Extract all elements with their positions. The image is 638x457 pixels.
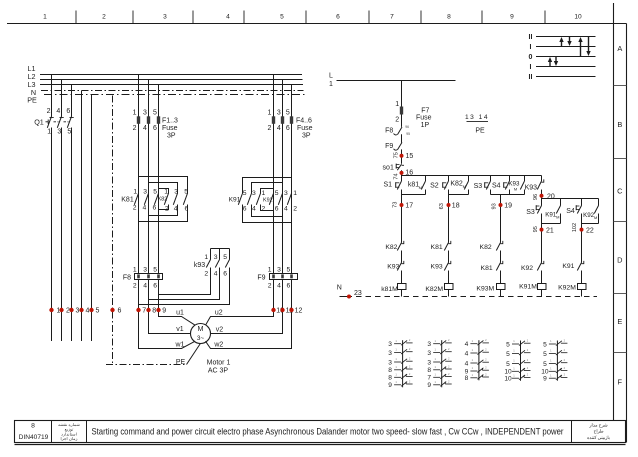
svg-text:4: 4 xyxy=(143,125,147,132)
svg-text:4: 4 xyxy=(284,206,288,213)
svg-text:K82: K82 xyxy=(158,196,168,202)
node 10 xyxy=(271,308,284,315)
svg-text:8: 8 xyxy=(388,375,392,382)
wire control feed line xyxy=(337,80,456,82)
title block revision cell (Farsi) xyxy=(58,422,80,441)
svg-text:6: 6 xyxy=(287,283,291,290)
node 20 xyxy=(533,194,555,201)
wire loop K91 outer xyxy=(243,178,292,223)
svg-text:5: 5 xyxy=(287,266,291,273)
node 3 xyxy=(69,308,79,315)
svg-text:K81: K81 xyxy=(431,244,443,251)
svg-text:1: 1 xyxy=(395,101,399,108)
svg-text:K91M: K91M xyxy=(519,284,537,291)
node 6 xyxy=(110,308,121,315)
wire subrung1 down xyxy=(541,224,543,263)
svg-text:v1: v1 xyxy=(176,326,184,333)
rail L1 xyxy=(40,74,302,76)
motor terminal labels xyxy=(175,310,224,349)
node 12 xyxy=(289,308,302,315)
svg-text:K92: K92 xyxy=(583,212,595,219)
svg-text:5: 5 xyxy=(67,129,71,136)
svg-text:3~: 3~ xyxy=(197,335,205,342)
svg-text:1: 1 xyxy=(47,129,51,136)
wire rung3 bottom bar xyxy=(491,194,525,196)
svg-text:M: M xyxy=(463,184,466,189)
svg-text:K82: K82 xyxy=(450,181,463,188)
svg-text:E: E xyxy=(617,317,622,326)
svg-text:1: 1 xyxy=(268,266,272,273)
node 2 xyxy=(59,308,70,315)
coil k81M xyxy=(398,284,407,297)
fuse F4..6 bodies xyxy=(272,116,293,124)
overload relay F8 xyxy=(135,274,163,280)
node 1 xyxy=(49,308,60,315)
svg-text:63: 63 xyxy=(439,203,445,209)
svg-text:K92: K92 xyxy=(521,265,533,272)
K91 terminal numbers xyxy=(243,190,266,213)
contact K93 aux NO xyxy=(508,176,524,195)
coil K93M xyxy=(497,284,506,297)
node 7 xyxy=(136,308,146,315)
svg-text:23: 23 xyxy=(354,290,362,297)
svg-text:10: 10 xyxy=(504,376,512,383)
svg-text:S3: S3 xyxy=(474,183,483,190)
ruler ticks xyxy=(76,11,545,24)
svg-text:2: 2 xyxy=(293,206,297,213)
svg-text:4: 4 xyxy=(214,271,218,278)
fuse F7 label xyxy=(416,107,432,128)
terminal label 13 14 PE xyxy=(465,114,489,135)
svg-text:K81: K81 xyxy=(121,197,134,204)
node 8 xyxy=(146,308,156,315)
svg-text:1: 1 xyxy=(133,109,137,116)
Q1 pole 2 xyxy=(57,80,63,342)
svg-text:102: 102 xyxy=(572,223,578,232)
svg-text:3: 3 xyxy=(214,254,218,261)
node 5 xyxy=(89,308,99,315)
svg-text:22: 22 xyxy=(586,227,594,234)
svg-text:1: 1 xyxy=(164,189,168,196)
svg-text:K92: K92 xyxy=(263,198,273,204)
svg-text:1: 1 xyxy=(293,190,297,197)
svg-text:M: M xyxy=(556,215,559,220)
rail L3 xyxy=(40,84,303,86)
control feed label L 1 xyxy=(329,72,333,88)
svg-text:3P: 3P xyxy=(302,132,311,139)
svg-text:K92M: K92M xyxy=(558,285,576,292)
wire rung1 bottom bar xyxy=(402,194,426,196)
svg-text:3: 3 xyxy=(427,359,431,366)
svg-text:F8: F8 xyxy=(385,128,393,135)
svg-text:5: 5 xyxy=(506,341,510,348)
svg-text:8: 8 xyxy=(31,423,35,430)
fuse F4..6 label xyxy=(296,117,313,139)
svg-text:1P: 1P xyxy=(421,122,430,129)
Q1 pole 3 xyxy=(67,85,73,342)
F9 terminal numbers xyxy=(268,266,291,289)
wire loop K82 middle xyxy=(149,183,178,216)
wire fuse F1..3 drops xyxy=(139,75,159,194)
svg-text:3: 3 xyxy=(427,350,431,357)
svg-text:3: 3 xyxy=(57,129,61,136)
wire rung2 drop xyxy=(448,176,450,182)
wire subrung2 bar xyxy=(582,223,599,225)
svg-text:PE: PE xyxy=(475,128,485,135)
svg-text:96: 96 xyxy=(405,125,409,129)
k93 terminal numbers xyxy=(204,254,227,277)
svg-text:3: 3 xyxy=(174,189,178,196)
F8 terminal numbers xyxy=(133,266,157,289)
node 18 xyxy=(439,203,460,210)
svg-text:4: 4 xyxy=(252,206,256,213)
svg-text:II: II xyxy=(529,34,533,41)
svg-text:5: 5 xyxy=(543,351,547,358)
wire loop K82 inner xyxy=(159,189,169,210)
svg-text:1: 1 xyxy=(133,266,137,273)
contact K93 NC gate xyxy=(537,176,544,199)
svg-text:k81M: k81M xyxy=(381,286,398,293)
speed sequence diagram lines II I 0 I II xyxy=(529,34,596,81)
svg-text:F7: F7 xyxy=(421,107,429,114)
svg-text:2: 2 xyxy=(133,125,137,132)
svg-text:6: 6 xyxy=(243,206,247,213)
svg-text:C: C xyxy=(617,187,623,196)
wire K92 outputs down to F9 xyxy=(274,205,292,274)
svg-text:9: 9 xyxy=(543,376,547,383)
svg-text:4: 4 xyxy=(277,125,281,132)
svg-text:3: 3 xyxy=(143,266,147,273)
rail N dash-dot xyxy=(41,90,304,92)
svg-text:w1: w1 xyxy=(175,342,185,349)
svg-text:4: 4 xyxy=(465,341,469,348)
svg-text:بازبینی کننده: بازبینی کننده xyxy=(587,435,610,440)
button so1 stop NC xyxy=(396,164,404,176)
svg-text:1: 1 xyxy=(267,109,271,116)
svg-text:8: 8 xyxy=(427,367,431,374)
svg-text:M: M xyxy=(594,215,597,220)
svg-text:u1: u1 xyxy=(176,310,184,317)
ruler numbers 1-10 xyxy=(43,14,582,21)
button S3 start xyxy=(485,176,491,195)
contact K91 NC (rung5) xyxy=(577,261,584,284)
motor name label xyxy=(207,359,231,374)
svg-text:F: F xyxy=(618,378,623,387)
svg-text:17: 17 xyxy=(405,203,413,210)
wire PE bonding conductor dash-dot xyxy=(106,96,200,365)
wire N drop xyxy=(81,91,83,342)
svg-text:9: 9 xyxy=(510,14,514,21)
Q1 linkage dashes xyxy=(46,120,69,125)
svg-text:0: 0 xyxy=(529,54,533,61)
coil K92M xyxy=(578,284,587,297)
svg-text:12: 12 xyxy=(295,308,303,315)
svg-text:طراح: طراح xyxy=(594,428,604,433)
title block sheet cell xyxy=(19,423,49,442)
border frame top ruler line xyxy=(7,23,627,25)
svg-text:20: 20 xyxy=(547,194,555,201)
svg-text:PE: PE xyxy=(176,359,186,366)
svg-text:II: II xyxy=(529,74,533,81)
svg-text:3: 3 xyxy=(76,308,80,315)
contact K82 NC (rung3) xyxy=(496,241,503,263)
wire k93 to motor lines xyxy=(139,268,230,305)
svg-text:3: 3 xyxy=(143,109,147,116)
svg-text:A: A xyxy=(617,44,622,53)
svg-text:2: 2 xyxy=(204,271,208,278)
svg-text:1: 1 xyxy=(43,14,47,21)
svg-text:K91: K91 xyxy=(545,212,557,219)
node 16 xyxy=(393,170,413,180)
svg-text:3: 3 xyxy=(277,266,281,273)
svg-text:3: 3 xyxy=(252,190,256,197)
sequence arrows xyxy=(548,37,591,67)
svg-text:K93: K93 xyxy=(525,184,538,191)
svg-text:2: 2 xyxy=(133,283,137,290)
contact K93 NC (rung1) xyxy=(397,261,404,284)
svg-text:6: 6 xyxy=(118,308,122,315)
wire loop K82 outer xyxy=(139,177,188,222)
svg-text:73: 73 xyxy=(392,202,398,208)
svg-text:F1..3: F1..3 xyxy=(162,117,178,124)
contact K81 NC (rung3) xyxy=(496,261,503,284)
svg-text:19: 19 xyxy=(504,203,512,210)
motor label M 3~ xyxy=(197,324,205,342)
contact cross-reference table k81M xyxy=(388,338,412,389)
fuse F7 terminal numbers xyxy=(395,101,399,123)
svg-text:5: 5 xyxy=(153,188,157,195)
wire loop K91 middle xyxy=(252,183,283,217)
svg-text:5: 5 xyxy=(286,109,290,116)
svg-text:k93: k93 xyxy=(194,262,205,269)
contactor K92 poles xyxy=(269,193,291,205)
svg-text:AC 3P: AC 3P xyxy=(208,368,229,375)
svg-text:Q1: Q1 xyxy=(34,117,44,126)
svg-text:3P: 3P xyxy=(167,132,176,139)
svg-text:4: 4 xyxy=(226,14,230,21)
fuse F1..3 terminal numbers xyxy=(133,109,157,132)
svg-text:6: 6 xyxy=(153,205,157,212)
button S4 start xyxy=(504,176,510,195)
contactor K91 poles xyxy=(238,193,260,205)
svg-text:3: 3 xyxy=(388,359,392,366)
svg-text:K82M: K82M xyxy=(425,286,443,293)
svg-text:2: 2 xyxy=(165,205,169,212)
contactor k93 poles xyxy=(206,260,229,268)
contact cross-reference table K92M xyxy=(541,339,567,383)
svg-text:M: M xyxy=(514,186,517,191)
wire sub rail xyxy=(542,198,599,200)
wire subrung1 bar xyxy=(542,223,561,225)
wire rung3 down xyxy=(500,195,502,243)
button S2 start xyxy=(443,176,449,195)
button S3 speed select xyxy=(536,199,541,224)
svg-text:5: 5 xyxy=(280,14,284,21)
svg-text:M: M xyxy=(419,185,422,190)
svg-text:3: 3 xyxy=(284,190,288,197)
node 15 xyxy=(393,152,413,160)
svg-text:8: 8 xyxy=(447,14,451,21)
node 23 xyxy=(347,290,362,299)
svg-text:5: 5 xyxy=(153,109,157,116)
contactor K81 poles xyxy=(134,193,158,205)
wire control rail xyxy=(402,175,542,177)
overload relay F9 xyxy=(270,274,298,280)
svg-text:4: 4 xyxy=(143,205,147,212)
svg-text:3: 3 xyxy=(388,341,392,348)
svg-text:1: 1 xyxy=(262,190,266,197)
svg-text:F9: F9 xyxy=(257,274,265,281)
node 19 xyxy=(491,203,512,210)
Q1 terminal numbers xyxy=(47,108,72,135)
svg-text:5: 5 xyxy=(153,266,157,273)
svg-text:6: 6 xyxy=(223,271,227,278)
contactor K82 poles xyxy=(164,193,187,205)
svg-text:8: 8 xyxy=(465,375,469,382)
row letter separators xyxy=(614,86,627,353)
node 17 xyxy=(392,202,413,210)
svg-text:شرح مدار: شرح مدار xyxy=(588,422,607,427)
svg-text:8: 8 xyxy=(152,308,156,315)
contact K92 NC (rung4) xyxy=(537,261,544,284)
svg-text:9: 9 xyxy=(388,382,392,389)
svg-text:Motor 1: Motor 1 xyxy=(207,359,231,366)
contact K91 aux NO xyxy=(545,199,560,224)
svg-text:N: N xyxy=(337,284,342,291)
svg-text:95: 95 xyxy=(406,132,410,136)
svg-text:F9: F9 xyxy=(385,143,393,150)
svg-text:6: 6 xyxy=(153,283,157,290)
svg-text:2: 2 xyxy=(66,308,70,315)
svg-text:5: 5 xyxy=(184,189,188,196)
svg-text:2: 2 xyxy=(267,125,271,132)
border frame right outer vertical xyxy=(626,24,628,443)
svg-text:M: M xyxy=(198,324,204,333)
wire rung1 down xyxy=(401,195,403,243)
rail L2 xyxy=(40,79,303,81)
svg-text:u2: u2 xyxy=(215,310,223,317)
title block signature cell (Farsi) xyxy=(587,422,610,439)
svg-text:I: I xyxy=(530,64,532,71)
wire F8 to u1 v1 w1 xyxy=(139,279,196,349)
svg-text:K93M: K93M xyxy=(476,286,494,293)
svg-text:15: 15 xyxy=(406,153,414,160)
svg-text:Fuse: Fuse xyxy=(416,115,432,122)
svg-text:74: 74 xyxy=(393,173,399,179)
contact K82 NC (rung1) xyxy=(397,241,404,263)
fuse F4..6 terminal numbers xyxy=(267,109,289,132)
coil K91M xyxy=(538,284,547,297)
svg-text:5: 5 xyxy=(243,190,247,197)
svg-text:1: 1 xyxy=(329,81,333,88)
contact cross-reference table K93M xyxy=(465,338,489,382)
svg-text:K81: K81 xyxy=(481,265,493,272)
svg-text:5: 5 xyxy=(506,351,510,358)
contact k81 aux NO xyxy=(408,176,426,195)
svg-text:2: 2 xyxy=(262,206,266,213)
svg-text:4: 4 xyxy=(174,205,178,212)
fuse F1..3 label xyxy=(162,117,178,139)
svg-text:S4: S4 xyxy=(492,182,501,189)
svg-text:7: 7 xyxy=(427,375,431,382)
svg-text:4: 4 xyxy=(86,308,90,315)
coil K82M xyxy=(445,284,454,297)
svg-text:D: D xyxy=(617,256,622,265)
border frame right inner vertical xyxy=(613,3,615,421)
svg-text:10: 10 xyxy=(574,14,582,21)
svg-text:21: 21 xyxy=(546,227,554,234)
svg-text:K82: K82 xyxy=(385,244,397,251)
svg-text:9: 9 xyxy=(162,308,166,315)
button S4 speed select xyxy=(576,199,581,224)
wire F9 to u2 v2 w2 xyxy=(206,279,292,349)
wire rung2 bottom bar xyxy=(449,194,469,196)
svg-text:2: 2 xyxy=(268,283,272,290)
svg-text:5: 5 xyxy=(506,361,510,368)
svg-text:Fuse: Fuse xyxy=(162,125,178,132)
svg-text:7: 7 xyxy=(142,308,146,315)
contact K82 aux NO xyxy=(450,176,468,195)
svg-text:4: 4 xyxy=(465,360,469,367)
svg-text:S1: S1 xyxy=(384,181,393,188)
svg-text:8: 8 xyxy=(388,367,392,374)
svg-text:v2: v2 xyxy=(216,327,224,334)
svg-text:I: I xyxy=(530,44,532,51)
svg-text:3: 3 xyxy=(388,350,392,357)
svg-text:F8: F8 xyxy=(123,274,131,281)
svg-text:6: 6 xyxy=(66,108,70,115)
node 22 xyxy=(572,223,594,234)
svg-text:4: 4 xyxy=(56,108,60,115)
wire control drop xyxy=(401,81,403,127)
contactor k93 star bridge xyxy=(211,249,230,260)
contact K81 NC (rung2) xyxy=(444,241,451,263)
wire K81 outputs down to F8 xyxy=(139,205,159,274)
svg-text:K91: K91 xyxy=(229,197,241,204)
svg-text:95: 95 xyxy=(533,226,539,232)
svg-text:5: 5 xyxy=(275,190,279,197)
svg-text:93: 93 xyxy=(491,203,497,209)
svg-text:3: 3 xyxy=(427,341,431,348)
Q1 pole 1 xyxy=(47,75,53,342)
fuse F7 body xyxy=(400,107,403,115)
svg-text:6: 6 xyxy=(286,125,290,132)
svg-text:K93: K93 xyxy=(431,263,443,270)
svg-text:6: 6 xyxy=(185,205,189,212)
svg-text:2: 2 xyxy=(133,205,137,212)
fuse F1..3 bodies xyxy=(137,116,160,124)
svg-text:5: 5 xyxy=(96,308,100,315)
K82 terminal numbers xyxy=(164,189,188,213)
svg-text:4: 4 xyxy=(143,283,147,290)
svg-text:w2: w2 xyxy=(213,342,223,349)
contact F9 thermal NC xyxy=(394,142,403,163)
svg-text:96: 96 xyxy=(533,194,539,200)
wire subrung2 down xyxy=(581,224,583,263)
svg-text:2: 2 xyxy=(395,116,399,123)
svg-text:5: 5 xyxy=(543,341,547,348)
svg-text:3: 3 xyxy=(163,14,167,21)
svg-text:3: 3 xyxy=(143,188,147,195)
rail N control dashed xyxy=(337,284,597,296)
motor M1 circle xyxy=(191,324,211,344)
svg-text:K93: K93 xyxy=(387,263,399,270)
svg-text:6: 6 xyxy=(153,125,157,132)
svg-text:1: 1 xyxy=(204,254,208,261)
svg-text:k81: k81 xyxy=(408,181,419,188)
svg-text:6: 6 xyxy=(275,206,279,213)
wire PE drop xyxy=(91,95,93,342)
